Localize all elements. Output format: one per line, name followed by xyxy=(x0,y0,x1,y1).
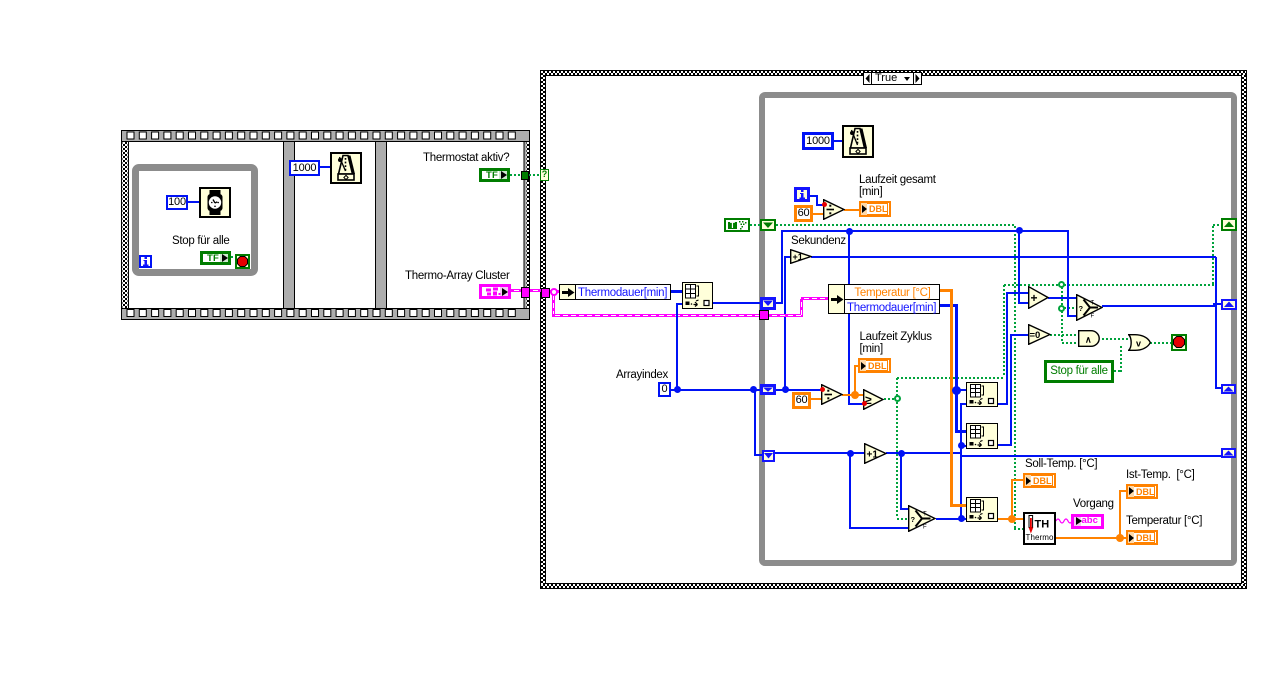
svg-text:T: T xyxy=(1091,300,1095,306)
svg-text:∧: ∧ xyxy=(1085,335,1092,345)
svg-text:F: F xyxy=(1091,313,1095,319)
svg-text:?: ? xyxy=(1079,304,1084,313)
svg-text:=0: =0 xyxy=(1030,330,1041,341)
svg-text:+: + xyxy=(1031,291,1038,305)
svg-text:Thermo: Thermo xyxy=(1026,533,1055,542)
svg-text:T: T xyxy=(923,512,927,518)
svg-text:TH: TH xyxy=(1035,519,1050,531)
svg-text:?: ? xyxy=(911,515,916,524)
svg-text:v: v xyxy=(1136,339,1141,349)
svg-text:+1: +1 xyxy=(867,450,879,461)
svg-text:F: F xyxy=(923,525,927,531)
svg-text:+1: +1 xyxy=(793,252,803,262)
